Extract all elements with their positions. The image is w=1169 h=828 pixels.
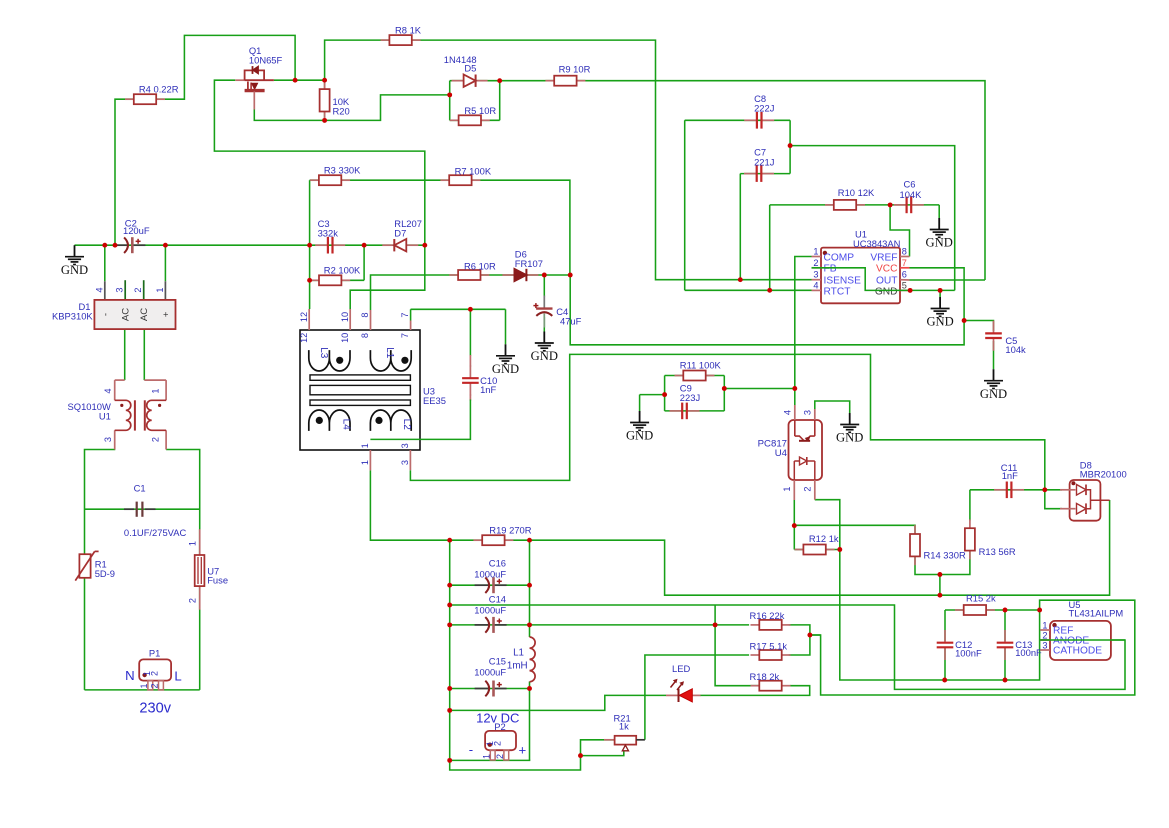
fuse U7 — [199, 529, 201, 555]
wire: R20 top node up through R8 to ISENSE — [325, 40, 812, 280]
svg-text:GND: GND — [980, 387, 1007, 401]
ground GND below C4 — [543, 332, 545, 344]
svg-text:R18 2k: R18 2k — [750, 671, 780, 682]
wire: Q1 source to R20 bottom and R5/D5 node — [254, 95, 449, 121]
wire: bridge pin3 down to choke — [124, 330, 126, 380]
resistor R6 10R — [449, 274, 458, 276]
svg-text:D7: D7 — [394, 227, 406, 238]
diode D7 RL207 — [382, 244, 394, 246]
wire: C8/C7 right vertical — [789, 120, 791, 173]
svg-text:3: 3 — [400, 443, 410, 448]
svg-text:GND: GND — [926, 236, 953, 250]
svg-text:1000uF: 1000uF — [474, 568, 506, 579]
wire: C3/R2 right vertical — [363, 245, 365, 280]
svg-text:3: 3 — [103, 437, 113, 442]
wire: bridge pin2 down to choke — [143, 330, 145, 380]
svg-text:GND: GND — [836, 431, 863, 445]
svg-text:C6: C6 — [904, 179, 916, 190]
svg-text:2: 2 — [1042, 630, 1047, 640]
wire: R4 left lead down to HV bus — [115, 99, 134, 245]
svg-text:2: 2 — [813, 258, 818, 268]
ground GND below UC3843 pin5 — [939, 297, 941, 309]
op-amp U1 UC3843AN — [821, 248, 900, 304]
svg-text:10: 10 — [340, 333, 350, 343]
resistor R10 12K — [825, 204, 834, 206]
wire: choke pin3 to left mains rail — [85, 450, 116, 690]
inductor L1 1mH — [530, 637, 536, 682]
svg-text:P2: P2 — [494, 721, 505, 732]
wire: C5 bottom to GND — [993, 341, 995, 369]
wire: bridge pin4 to HV bus — [104, 245, 106, 281]
wire: HV bus from GND/C2 to C3/D7 node — [75, 244, 425, 246]
wire: D5 row — [450, 80, 500, 82]
svg-text:223J: 223J — [680, 392, 700, 403]
svg-text:5: 5 — [902, 281, 907, 291]
ground GND below C6 — [938, 218, 940, 230]
resistor R5 10R — [450, 119, 459, 121]
svg-text:L4: L4 — [341, 419, 352, 431]
transistor Q1 10N65F — [235, 79, 244, 81]
svg-text:C16: C16 — [489, 557, 506, 568]
svg-text:2: 2 — [133, 287, 143, 292]
svg-text:GND: GND — [926, 315, 953, 329]
wire: VCC node to C5 — [964, 321, 993, 332]
svg-text:MBR20100: MBR20100 — [1080, 468, 1127, 479]
wire: Q1 gate to D7 anode / xfmr pin10 vertical — [214, 80, 424, 309]
capacitor C15 1000uF — [475, 688, 489, 690]
svg-text:1nF: 1nF — [1002, 470, 1018, 481]
wire: C10 top to GND row — [469, 309, 471, 355]
wire: C14 row to R16 — [450, 624, 749, 626]
capacitor C4 47uF — [543, 296, 545, 309]
wire: R3 left vertical to C3/R2/pin12 node — [309, 180, 311, 309]
capacitor C10 1nF — [469, 366, 471, 379]
wire: C9 GND stem — [639, 395, 641, 411]
svg-text:R12 1k: R12 1k — [809, 533, 839, 544]
wire: Q1 drain row to R20 top — [274, 79, 325, 81]
svg-text:L1: L1 — [384, 347, 395, 359]
resistor R20 10K — [324, 80, 326, 89]
svg-text:GND: GND — [626, 429, 653, 443]
wire: xfmr pin1 down to R19 row and +12V rail to D8 cathode — [370, 470, 1109, 595]
wire: R11/C9 right vertical — [723, 376, 725, 411]
svg-text:D5: D5 — [464, 63, 476, 74]
svg-text:47uF: 47uF — [560, 316, 582, 327]
svg-text:+: + — [161, 311, 172, 317]
svg-text:R4 0.22R: R4 0.22R — [139, 84, 179, 95]
wire: D5 node through R9 to UC3843 OUT — [500, 81, 985, 280]
wire: R18 to LED anode — [700, 686, 810, 696]
svg-text:1: 1 — [482, 754, 492, 759]
svg-text:P1: P1 — [149, 648, 160, 659]
wire: C9 GND branch — [640, 394, 665, 396]
svg-text:R3 330K: R3 330K — [324, 164, 361, 175]
capacitor C2 120uF — [113, 244, 127, 246]
svg-text:R9 10R: R9 10R — [559, 63, 591, 74]
svg-text:R15 2k: R15 2k — [966, 593, 996, 604]
wire: PC817 pin3 to GND — [815, 401, 850, 413]
svg-text:VCC: VCC — [876, 264, 898, 275]
wire: C4 bottom to GND — [543, 317, 545, 332]
wire: output right rail (plus) — [529, 540, 531, 637]
connector P2 12v DC — [485, 731, 516, 750]
svg-text:GND: GND — [531, 349, 558, 363]
svg-text:COMP: COMP — [824, 252, 855, 263]
svg-text:FR107: FR107 — [515, 258, 543, 269]
svg-text:12: 12 — [299, 333, 309, 343]
svg-text:230v: 230v — [139, 700, 171, 716]
wire: R10 left vertical to RTCT — [769, 205, 771, 290]
wire: R17 row from R21 node — [645, 655, 749, 740]
capacitor C16 1000uF — [475, 584, 489, 586]
svg-text:OUT: OUT — [876, 276, 898, 287]
resistor R9 10R — [545, 80, 554, 82]
svg-text:4: 4 — [103, 388, 113, 393]
svg-text:6: 6 — [902, 270, 907, 280]
svg-text:-: - — [469, 742, 473, 757]
svg-text:3: 3 — [803, 410, 813, 415]
capacitor C6 104K — [894, 204, 907, 206]
svg-text:2: 2 — [187, 598, 197, 603]
wire: R11/C9 left vertical — [664, 376, 666, 411]
svg-text:U1: U1 — [99, 411, 111, 422]
wire: C13 column — [1004, 610, 1006, 641]
wire: C1 row — [85, 508, 200, 510]
svg-text:332k: 332k — [318, 227, 339, 238]
capacitor C1 0.1UF/275VAC — [124, 508, 134, 510]
wire: xfmr pin3 to snubber row to D8 anodes — [410, 354, 1062, 508]
wire: R13 bottom to R14 bottom row — [915, 550, 970, 575]
wire: R11 row — [665, 375, 725, 377]
svg-text:4: 4 — [813, 281, 818, 291]
junction dots — [102, 243, 107, 248]
transformer U3 EE35 — [300, 330, 420, 450]
wire: PC817 pin1 down to R12 — [793, 500, 795, 550]
svg-text:LED: LED — [672, 663, 690, 674]
wire: R2 row — [310, 279, 365, 281]
wire: C7 left vertical to ISENSE row — [739, 174, 741, 280]
wire: minus feedback wire to TL431 anode return — [450, 605, 1125, 689]
resistor R16 22k — [751, 624, 760, 626]
capacitor C14 1000uF — [475, 624, 489, 626]
svg-text:104k: 104k — [1005, 344, 1026, 355]
svg-text:4: 4 — [94, 287, 104, 292]
svg-text:1: 1 — [139, 683, 149, 688]
svg-text:1000uF: 1000uF — [474, 667, 506, 678]
svg-text:UC3843AN: UC3843AN — [853, 238, 900, 249]
svg-text:104K: 104K — [900, 189, 923, 200]
svg-text:AC: AC — [139, 308, 150, 321]
wire: R12 row — [794, 549, 806, 551]
capacitor C3 332k — [315, 244, 328, 246]
wire: bottom rail under P2 — [450, 759, 531, 761]
svg-text:N: N — [125, 668, 135, 683]
wire: R16/R17 divider verticals — [789, 625, 810, 655]
svg-text:10: 10 — [340, 312, 350, 322]
svg-text:RTCT: RTCT — [824, 286, 851, 297]
capacitor C9 223J — [670, 410, 683, 412]
svg-text:7: 7 — [400, 312, 410, 317]
svg-text:222J: 222J — [754, 103, 774, 114]
svg-text:4: 4 — [783, 410, 793, 415]
wire: choke pin2 to right mains rail — [166, 450, 200, 690]
wire: R21 left lead net — [581, 740, 615, 756]
choke U1 SQ1010W — [115, 379, 125, 381]
svg-text:GND: GND — [492, 362, 519, 376]
wire: C11/D8 upper anode row — [970, 489, 1062, 491]
resistor R13 56R — [969, 519, 971, 528]
svg-text:5D-9: 5D-9 — [95, 568, 115, 579]
wire: R3/R7 row to D6 node — [310, 180, 570, 275]
svg-text:R5 10R: R5 10R — [464, 105, 496, 116]
wire: C12 column — [944, 610, 946, 641]
wire: C15 row — [450, 688, 530, 690]
svg-text:2: 2 — [149, 671, 159, 676]
wire: D5/R5 left vertical — [449, 81, 451, 121]
svg-text:2: 2 — [492, 741, 502, 746]
wire: R5 row — [450, 119, 500, 121]
wire: divider node to bottom loop — [810, 634, 821, 636]
wire: PC817 pin2 down / C12-C13 bottom / TL431 REF loop — [810, 500, 1135, 695]
optocoupler U4 PC817 — [789, 420, 823, 480]
connector P1 230v — [139, 659, 171, 680]
svg-text:C15: C15 — [489, 656, 506, 667]
wire: xfmr pin1 to C10 bottom — [370, 400, 470, 440]
varistor R1 5D-9 — [79, 554, 90, 578]
wire: R14 top to PC817 pin1 node — [794, 525, 915, 535]
svg-text:AC: AC — [121, 308, 132, 321]
wire: OUT pin6 row — [910, 279, 986, 281]
wire: D6 node down and VCC feed wire — [570, 268, 964, 345]
wire: D5/R5 right vertical — [499, 81, 501, 121]
wire: mains bottom rail through P1 — [85, 689, 200, 691]
wire: R10 right node to VREF pin8 — [890, 205, 909, 257]
svg-text:7: 7 — [902, 258, 907, 268]
svg-text:R2 100K: R2 100K — [324, 265, 361, 276]
wire: C6 right to GND — [938, 205, 940, 218]
wire: C4 top lead — [543, 275, 545, 297]
svg-text:3: 3 — [813, 270, 818, 280]
svg-text:2: 2 — [151, 437, 161, 442]
svg-text:GND: GND — [875, 286, 898, 297]
svg-text:1: 1 — [187, 541, 197, 546]
wire: C9 row — [665, 410, 725, 412]
wire: C8/C7 node to IC GND pin5 — [790, 146, 955, 291]
svg-text:L1: L1 — [513, 648, 524, 659]
wire: bridge pin1 to HV bus — [164, 245, 166, 281]
svg-text:1: 1 — [151, 388, 161, 393]
resistor R15 2k — [955, 609, 964, 611]
resistor R17 5.1k — [751, 654, 760, 656]
svg-text:+: + — [518, 743, 526, 758]
wire: C7 row — [740, 173, 790, 175]
svg-text:2: 2 — [803, 486, 813, 491]
ground GND right of PC817 pin3 — [849, 413, 851, 425]
svg-text:C1: C1 — [134, 483, 146, 494]
shunt regulator U5 TL431AILPM — [1050, 621, 1111, 660]
wire: R4 right to Q1 drain node — [156, 35, 295, 99]
svg-text:1k: 1k — [619, 721, 629, 732]
wire: R10 row / C6 row — [770, 204, 940, 206]
svg-text:3: 3 — [115, 287, 125, 292]
wire: pin5 GND drop — [939, 290, 941, 297]
svg-text:1: 1 — [1042, 620, 1047, 630]
wire: C16 row — [450, 584, 530, 586]
svg-text:R11 100K: R11 100K — [680, 360, 722, 371]
resistor R7 100K — [440, 179, 449, 181]
potentiometer R21 1k — [604, 739, 615, 741]
svg-text:EE35: EE35 — [423, 395, 446, 406]
resistor R4 0.22R — [125, 98, 134, 100]
svg-text:L: L — [174, 669, 181, 684]
svg-text:VREF: VREF — [870, 252, 897, 263]
ground GND left of C2 — [74, 245, 76, 257]
wire: R20 vertical — [324, 80, 326, 120]
svg-text:R17 5.1k: R17 5.1k — [750, 640, 788, 651]
wire: output left rail (minus) — [449, 540, 451, 760]
wire: R21 wiper return — [581, 751, 624, 756]
svg-text:100nF: 100nF — [955, 647, 982, 658]
svg-text:KBP310K: KBP310K — [52, 310, 93, 321]
svg-text:ISENSE: ISENSE — [824, 275, 862, 286]
svg-text:221J: 221J — [754, 156, 774, 167]
svg-text:1: 1 — [782, 486, 792, 491]
resistor R12 1k — [795, 549, 804, 551]
capacitor C5 104k — [993, 321, 995, 334]
svg-text:FB: FB — [824, 264, 837, 275]
wire: xfmr pin8 to R6/D6 row — [371, 275, 571, 310]
svg-text:R14 330R: R14 330R — [924, 550, 966, 561]
wire: GND stem drop right of C10 — [505, 309, 507, 344]
capacitor C7 221J — [744, 173, 757, 175]
svg-text:1mH: 1mH — [507, 660, 528, 671]
capacitor C11 1nF — [994, 489, 1007, 491]
svg-text:1000uF: 1000uF — [474, 605, 506, 616]
capacitor C13 100nF — [1004, 630, 1006, 643]
wire: R15 row — [945, 609, 1040, 611]
wire: xfmr pin7 riser — [410, 309, 412, 320]
svg-text:R16 22k: R16 22k — [750, 610, 785, 621]
wire: C8 row — [685, 119, 790, 121]
svg-text:R10 12K: R10 12K — [838, 187, 875, 198]
svg-text:R7 100K: R7 100K — [455, 166, 492, 177]
LED — [666, 694, 679, 696]
svg-text:R8 1K: R8 1K — [395, 25, 422, 36]
resistor R19 270R — [473, 539, 482, 541]
svg-text:Fuse: Fuse — [207, 574, 228, 585]
svg-text:10N65F: 10N65F — [249, 55, 283, 66]
svg-text:3: 3 — [400, 460, 410, 465]
svg-text:R13 56R: R13 56R — [979, 546, 1016, 557]
svg-text:TL431AILPM: TL431AILPM — [1069, 608, 1124, 619]
svg-text:R6 10R: R6 10R — [464, 261, 496, 272]
bridge rectifier D1 KBP310K — [104, 281, 106, 300]
resistor R14 330R — [914, 525, 916, 534]
wire: C8 left vertical down to RTCT row — [684, 120, 686, 290]
svg-text:120uF: 120uF — [123, 225, 150, 236]
wire: FB jumper over IC to GND pin5 row — [812, 268, 955, 291]
resistor R11 100K — [675, 375, 684, 377]
capacitor C8 222J — [744, 119, 757, 121]
svg-text:1: 1 — [813, 247, 818, 257]
wire: TL431 anode over-box wire — [1040, 639, 1125, 641]
svg-text:100nF: 100nF — [1015, 647, 1042, 658]
wire: R11/C9 node to PC817 pin4 — [724, 388, 795, 390]
svg-text:C14: C14 — [489, 593, 506, 604]
svg-text:8: 8 — [360, 333, 370, 338]
svg-text:2: 2 — [495, 754, 505, 759]
svg-text:12: 12 — [299, 312, 309, 322]
wire: minus rail to R21 net — [450, 756, 581, 770]
svg-text:L2: L2 — [401, 419, 412, 431]
svg-text:1nF: 1nF — [480, 384, 496, 395]
capacitor C12 100nF — [944, 630, 946, 643]
svg-text:CATHODE: CATHODE — [1053, 646, 1102, 657]
svg-text:1: 1 — [360, 460, 370, 465]
svg-text:0.1UF/275VAC: 0.1UF/275VAC — [124, 527, 187, 538]
ground GND below C5 — [993, 369, 995, 381]
wire: R14/R13 bottom node down to +12V rail — [939, 575, 941, 596]
wire: LED cathode to minus rail — [450, 695, 666, 710]
svg-text:8: 8 — [360, 312, 370, 317]
wire: COMP row to PC817 pin4 vertical — [795, 257, 812, 406]
svg-text:U4: U4 — [775, 448, 788, 459]
wire: R16 tap vertical — [715, 605, 759, 686]
diode D8 MBR20100 — [1070, 480, 1101, 521]
svg-text:R20: R20 — [333, 105, 350, 116]
svg-text:1: 1 — [155, 287, 165, 292]
svg-text:1: 1 — [360, 443, 370, 448]
wire: output right rail below L1 — [529, 682, 531, 761]
svg-text:GND: GND — [61, 263, 88, 277]
wire: C11 left vertical to R13 — [969, 490, 971, 521]
svg-text:3: 3 — [1042, 640, 1047, 650]
ground GND below C10 row — [505, 344, 507, 356]
svg-text:L3: L3 — [318, 347, 329, 359]
diode D6 FR107 — [502, 274, 514, 276]
wire: C10/pin7 GND row — [411, 308, 506, 310]
diode D5 1N4148 — [452, 80, 464, 82]
resistor R8 1K — [381, 39, 390, 41]
resistor R3 330K — [310, 179, 319, 181]
svg-text:7: 7 — [400, 333, 410, 338]
resistor R18 2k — [751, 685, 760, 687]
svg-text:8: 8 — [902, 247, 907, 257]
wire: RTCT row — [685, 289, 812, 291]
svg-text:-: - — [100, 313, 111, 316]
wire: R12 right to PC817 pin2 column — [824, 549, 840, 551]
resistor R2 100K — [310, 279, 319, 281]
svg-text:2: 2 — [150, 683, 160, 688]
ground GND below C9/R11 — [639, 411, 641, 423]
svg-text:R19 270R: R19 270R — [489, 525, 531, 536]
